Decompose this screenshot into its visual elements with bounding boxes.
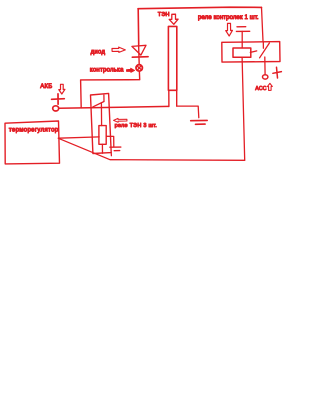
thermostat box	[5, 121, 60, 164]
heater ТЭН body	[168, 26, 176, 90]
arrow АКБ (down hollow)	[59, 84, 65, 94]
ground above relay K2	[237, 26, 246, 28]
ground relay K1	[110, 146, 121, 148]
wire lamp to bus	[81, 72, 140, 108]
wire K2 switch to АСС terminal	[264, 57, 266, 75]
relay K2 box (реле контролек)	[222, 42, 280, 63]
relay K1 coil lead	[100, 103, 102, 126]
wire K2 coil down	[242, 57, 245, 160]
relay K1 switch	[103, 95, 105, 101]
wire coil to ground	[106, 136, 114, 147]
arrow АСС (up hollow)	[267, 83, 272, 90]
wire thermostat to relay K1	[58, 137, 99, 138]
plus АКБ	[52, 94, 65, 104]
arrow to relay K1 (left filled)	[114, 118, 127, 122]
svg-text:диод: диод	[91, 49, 106, 55]
wire ТЭН to ground	[177, 106, 199, 118]
ground ТЭН	[191, 119, 208, 121]
relay K1 coil	[99, 126, 106, 145]
wire bus right drop	[262, 7, 264, 41]
svg-text:реле ТЭН 3 шт.: реле ТЭН 3 шт.	[115, 123, 158, 129]
arrow ТЭН (down hollow)	[169, 14, 178, 24]
svg-text:АКБ: АКБ	[40, 84, 52, 90]
diode D1	[132, 45, 146, 55]
arrow to relay K2 (down hollow)	[226, 23, 233, 36]
relay K2 coil right lead	[250, 51, 256, 53]
svg-text:реле контролек 1 шт.: реле контролек 1 шт.	[198, 15, 259, 21]
relay K2 coil	[233, 48, 251, 57]
terminal circle АСС	[263, 75, 268, 79]
wire main bus	[59, 106, 169, 108]
wire K1 coil bottom lead	[101, 144, 103, 153]
svg-text:ТЭН: ТЭН	[158, 12, 170, 18]
wire K1 box edge overshoot	[110, 153, 112, 156]
arrow to lamp	[127, 68, 135, 72]
svg-text:контролька: контролька	[90, 67, 124, 73]
svg-text:АСС: АСС	[255, 86, 266, 92]
wire long bottom	[58, 138, 244, 160]
plus АСС	[273, 67, 282, 78]
arrow to diode	[112, 47, 125, 52]
lamp HL (контролька)	[136, 65, 142, 71]
svg-text:терморегулятор: терморегулятор	[9, 128, 59, 134]
wire diode feed	[137, 9, 140, 45]
terminal circle АКБ	[53, 106, 59, 111]
relay K1 box (реле ТЭН)	[91, 93, 112, 153]
wire top bus	[138, 7, 262, 9]
relay K2 switch	[262, 42, 264, 48]
